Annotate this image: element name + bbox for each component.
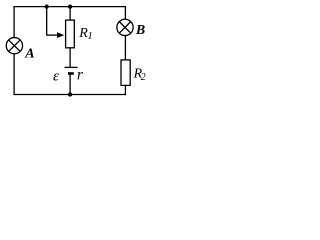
wire R1 top	[69, 7, 71, 21]
wire right lower	[124, 85, 126, 95]
svg-text:1: 1	[88, 31, 93, 42]
wire rheostat tap vertical	[46, 7, 48, 35]
wire top	[13, 6, 126, 8]
lamp B	[117, 19, 133, 35]
svg-text:A: A	[24, 46, 34, 61]
wire left upper	[13, 6, 15, 38]
node dot bottom (battery junction)	[68, 92, 72, 96]
arrowhead of rheostat	[57, 32, 64, 38]
wire right middle	[124, 36, 126, 61]
svg-text:ε: ε	[53, 68, 59, 84]
wire rheostat tap horizontal	[46, 34, 59, 36]
battery short plate	[68, 72, 74, 75]
wire bottom	[13, 94, 126, 96]
svg-text:r: r	[77, 66, 84, 83]
battery long plate	[65, 66, 78, 68]
wire left lower	[13, 54, 15, 95]
wire right upper	[124, 6, 126, 19]
svg-text:B: B	[135, 23, 145, 38]
wire R1 to battery	[69, 48, 71, 68]
lamp A	[6, 38, 22, 54]
node dot top-right (R1 junction)	[68, 4, 72, 8]
svg-text:2: 2	[141, 72, 146, 83]
wire battery bottom	[69, 75, 71, 96]
node dot top-left (tap junction)	[45, 4, 49, 8]
resistor R1	[66, 20, 75, 48]
resistor R2	[121, 60, 130, 86]
